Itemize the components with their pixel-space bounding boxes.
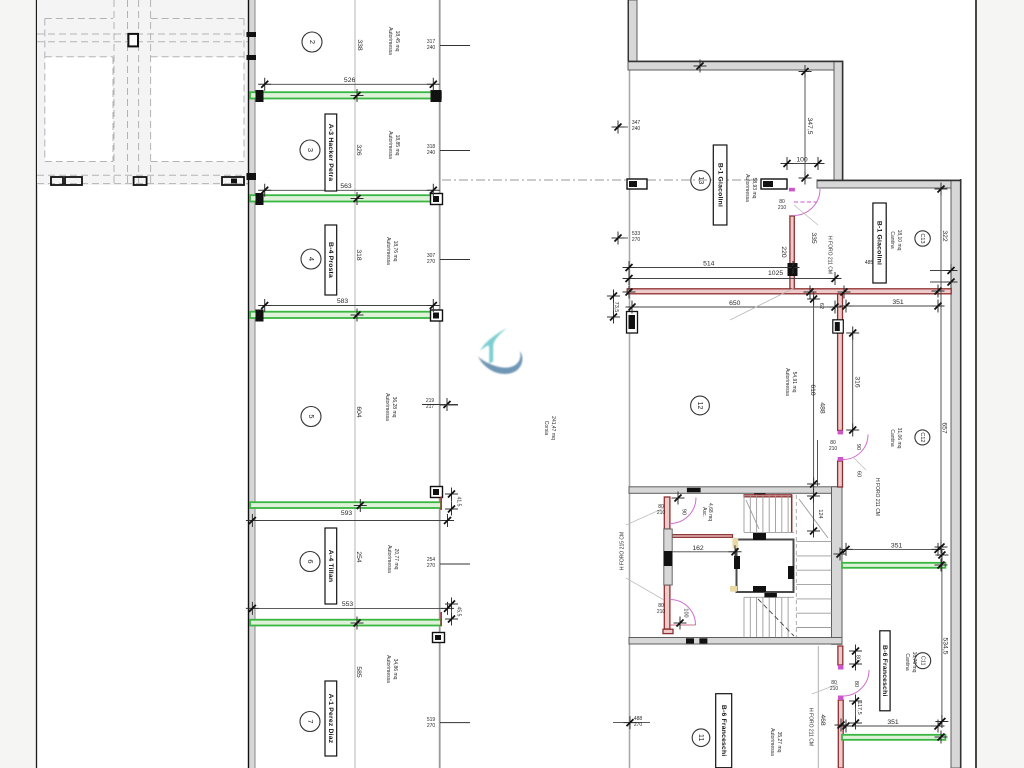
svg-text:2: 2 (308, 40, 317, 44)
svg-text:485: 485 (865, 260, 874, 266)
svg-text:162: 162 (692, 545, 704, 552)
svg-text:A-1 Perez Diaz: A-1 Perez Diaz (327, 694, 334, 744)
svg-text:604: 604 (355, 406, 362, 418)
svg-text:Autorimessa: Autorimessa (387, 27, 393, 55)
svg-text:514: 514 (703, 261, 715, 268)
svg-text:335: 335 (810, 232, 817, 244)
svg-text:210: 210 (829, 446, 838, 452)
svg-text:488: 488 (819, 402, 826, 414)
svg-text:220: 220 (780, 246, 787, 258)
svg-text:583: 583 (337, 298, 349, 305)
svg-text:585: 585 (355, 666, 362, 678)
svg-text:210: 210 (778, 205, 787, 211)
svg-text:90: 90 (680, 509, 686, 515)
svg-text:100: 100 (683, 608, 689, 617)
svg-text:A-3 Hacker Petra: A-3 Hacker Petra (327, 124, 334, 182)
svg-text:C11: C11 (919, 656, 925, 666)
svg-text:16,76 mq: 16,76 mq (911, 652, 917, 673)
svg-text:553: 553 (342, 601, 354, 608)
svg-text:563: 563 (340, 183, 352, 190)
svg-text:45,5: 45,5 (456, 607, 462, 617)
svg-text:210: 210 (657, 510, 666, 516)
svg-text:1025: 1025 (768, 270, 783, 277)
svg-text:A-4 Tillan: A-4 Tillan (327, 550, 334, 582)
svg-text:270: 270 (427, 723, 436, 729)
svg-text:Cantina: Cantina (889, 429, 895, 446)
svg-text:338: 338 (356, 39, 363, 51)
svg-text:H FORO 215 CM: H FORO 215 CM (620, 532, 626, 570)
svg-text:B-6 Franceschi: B-6 Franceschi (881, 645, 888, 697)
svg-text:H FORO 211 CM: H FORO 211 CM (874, 478, 880, 516)
svg-text:Autorimessa: Autorimessa (386, 545, 392, 573)
svg-text:610: 610 (809, 384, 816, 396)
svg-text:Autorimessa: Autorimessa (744, 174, 750, 202)
svg-text:351: 351 (892, 299, 904, 306)
svg-text:80: 80 (854, 655, 860, 661)
svg-text:270: 270 (634, 722, 643, 728)
svg-text:B-1 Giacolini: B-1 Giacolini (876, 221, 883, 265)
svg-text:318: 318 (355, 249, 362, 261)
svg-text:18,45 mq: 18,45 mq (394, 31, 400, 52)
svg-text:Cantina: Cantina (904, 653, 910, 670)
svg-text:7: 7 (306, 719, 315, 723)
svg-text:Autorimessa: Autorimessa (387, 131, 393, 159)
svg-text:C13: C13 (919, 233, 925, 243)
svg-text:31,06 mq: 31,06 mq (896, 428, 902, 449)
svg-text:240: 240 (427, 150, 436, 156)
svg-text:Autorimessa: Autorimessa (769, 728, 775, 756)
svg-text:Autorimessa: Autorimessa (784, 368, 790, 396)
svg-text:468: 468 (819, 714, 826, 726)
svg-text:C12: C12 (919, 432, 925, 442)
svg-text:Autorimessa: Autorimessa (385, 655, 391, 683)
svg-text:90: 90 (855, 444, 861, 450)
svg-text:5: 5 (307, 414, 316, 418)
svg-text:B-4 Prosta: B-4 Prosta (327, 242, 334, 278)
svg-text:254: 254 (355, 551, 362, 563)
svg-text:62: 62 (818, 303, 824, 309)
svg-text:240: 240 (427, 45, 436, 51)
svg-text:80: 80 (853, 681, 859, 687)
svg-text:73,5: 73,5 (613, 302, 619, 313)
svg-text:54,91 mq: 54,91 mq (791, 372, 797, 393)
svg-text:60: 60 (855, 471, 861, 477)
svg-text:12: 12 (696, 402, 703, 410)
svg-text:35,27 mq: 35,27 mq (776, 732, 782, 753)
svg-text:Corsia: Corsia (543, 421, 549, 436)
svg-text:210: 210 (657, 609, 666, 615)
svg-text:4,68 mq: 4,68 mq (707, 503, 713, 521)
svg-text:36,28 mq: 36,28 mq (391, 397, 397, 418)
svg-text:593: 593 (341, 510, 353, 517)
svg-text:210: 210 (830, 686, 839, 692)
svg-text:4: 4 (307, 257, 316, 261)
svg-text:Autorimessa: Autorimessa (385, 237, 391, 265)
svg-text:18,10 mq: 18,10 mq (896, 230, 902, 251)
svg-text:B-1 Giacolini: B-1 Giacolini (716, 163, 723, 207)
svg-text:H FORO 211 CM: H FORO 211 CM (808, 708, 814, 746)
svg-text:18,76 mq: 18,76 mq (392, 241, 398, 262)
svg-text:Cantina: Cantina (889, 231, 895, 248)
svg-text:H FORO 211 CM: H FORO 211 CM (827, 236, 833, 274)
svg-text:11: 11 (697, 734, 704, 741)
svg-text:270: 270 (427, 259, 436, 265)
svg-text:347,5: 347,5 (806, 117, 813, 134)
svg-text:270: 270 (427, 563, 436, 569)
svg-text:18,85 mq: 18,85 mq (394, 135, 400, 156)
svg-text:100: 100 (796, 157, 808, 164)
svg-text:322: 322 (941, 230, 948, 242)
svg-text:650: 650 (729, 300, 741, 307)
svg-text:13: 13 (697, 177, 704, 185)
svg-text:34,86 mq: 34,86 mq (392, 659, 398, 680)
svg-text:58,93 mq: 58,93 mq (751, 178, 757, 199)
svg-text:351: 351 (891, 543, 903, 550)
svg-text:41,5: 41,5 (456, 497, 462, 507)
svg-text:240: 240 (632, 126, 641, 132)
svg-text:20,77 mq: 20,77 mq (393, 549, 399, 570)
svg-text:Autorimessa: Autorimessa (384, 393, 390, 421)
svg-text:Asc.: Asc. (701, 507, 707, 517)
svg-text:534,5: 534,5 (942, 637, 949, 654)
svg-text:117,5: 117,5 (856, 701, 862, 714)
svg-text:326: 326 (355, 144, 362, 156)
svg-text:351: 351 (887, 719, 899, 726)
svg-text:270: 270 (632, 237, 641, 243)
svg-text:B-6 Franceschi: B-6 Franceschi (720, 705, 727, 757)
svg-text:316: 316 (854, 376, 861, 388)
svg-text:3: 3 (306, 148, 315, 152)
svg-text:526: 526 (344, 77, 356, 84)
svg-text:6: 6 (306, 559, 315, 563)
svg-text:241,47 mq: 241,47 mq (550, 416, 556, 440)
svg-text:124: 124 (817, 509, 823, 518)
svg-text:657: 657 (940, 422, 947, 434)
